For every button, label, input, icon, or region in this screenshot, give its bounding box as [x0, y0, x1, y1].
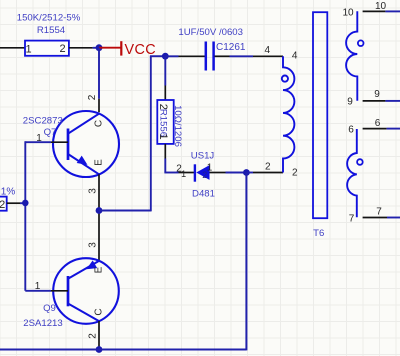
power VCC [99, 41, 156, 58]
D481 pin 2 (cathode) [176, 163, 194, 179]
T6 pin 6 [348, 118, 386, 135]
wire [387, 217, 400, 219]
junction emitters [96, 207, 103, 214]
T6 pin 7 [349, 206, 387, 224]
transistor Q7 [23, 111, 119, 177]
Q9 pin 2 (collector) [87, 321, 99, 349]
Q7 pin 3 (emitter) [87, 174, 99, 210]
svg-text:9: 9 [374, 89, 380, 100]
svg-text:E: E [94, 159, 105, 166]
svg-text:2: 2 [265, 161, 271, 172]
transistor Q9 [23, 258, 119, 329]
resistor R1556 [157, 100, 183, 147]
svg-text:1: 1 [181, 169, 186, 179]
T6 pin 4 [253, 45, 298, 61]
junction bottom rail [96, 346, 103, 353]
svg-text:10: 10 [375, 1, 387, 12]
svg-text:E: E [94, 266, 105, 273]
svg-text:3: 3 [87, 188, 98, 194]
wire [69, 47, 99, 49]
svg-text:T6: T6 [313, 228, 324, 239]
svg-text:1: 1 [157, 134, 169, 140]
Q9 pin 3 (emitter) [87, 211, 99, 261]
svg-text:6: 6 [348, 125, 354, 136]
wire [0, 349, 246, 351]
wire [99, 210, 151, 212]
svg-text:1: 1 [26, 44, 32, 56]
T6 pin 10 [342, 1, 386, 18]
Q7 pin 1 (base) [36, 133, 68, 144]
svg-text:2: 2 [87, 94, 98, 100]
junction VCC node [96, 44, 103, 51]
resistor fragment (1%) [0, 187, 15, 212]
wire [385, 10, 400, 12]
svg-text:C: C [94, 120, 105, 127]
wire [226, 172, 247, 174]
wire [245, 173, 247, 351]
wire [230, 55, 254, 57]
wire [164, 159, 178, 173]
C1261 pin 2 [215, 55, 230, 57]
svg-text:10Ω/1206: 10Ω/1206 [172, 105, 183, 147]
svg-text:4: 4 [292, 50, 298, 61]
D481 pin 1 (anode) [202, 162, 225, 180]
wire [25, 141, 51, 143]
wire [385, 100, 400, 102]
wire [25, 290, 51, 292]
Q9 pin 1 (base) [35, 281, 68, 292]
wire [165, 55, 178, 57]
svg-text:D481: D481 [192, 188, 215, 199]
diode D481 [191, 151, 215, 200]
T6 pin 2 [253, 161, 298, 178]
svg-text:150K/2512-5%: 150K/2512-5% [17, 12, 81, 23]
R1556 pin 2 [164, 86, 166, 101]
svg-text:1UF/50V /0603: 1UF/50V /0603 [178, 27, 243, 38]
wire [246, 172, 253, 174]
svg-text:2: 2 [292, 167, 298, 178]
junction node primary-low [243, 169, 250, 176]
svg-text:2: 2 [202, 170, 207, 180]
svg-text:US1J: US1J [191, 151, 215, 162]
svg-text:2: 2 [0, 199, 5, 211]
svg-text:2: 2 [59, 43, 65, 55]
T6 primary winding [282, 56, 295, 172]
svg-text:1: 1 [207, 162, 213, 173]
svg-text:Q9: Q9 [43, 303, 56, 314]
svg-text:R1554: R1554 [37, 25, 66, 36]
svg-text:2: 2 [87, 333, 98, 339]
junction node snubber [162, 53, 169, 60]
svg-text:3: 3 [87, 242, 98, 248]
svg-text:10: 10 [342, 7, 354, 18]
Q7 pin 2 (collector) [87, 94, 99, 112]
wire [150, 56, 152, 211]
svg-text:Q7: Q7 [44, 127, 57, 138]
C1261 pin 1 [179, 55, 206, 57]
svg-text:4: 4 [265, 45, 271, 56]
svg-text:2SA1213: 2SA1213 [23, 318, 62, 329]
wire [387, 128, 400, 130]
svg-text:7: 7 [349, 214, 355, 225]
wire [150, 55, 165, 57]
R1556 pin 1 [164, 144, 166, 159]
wire [98, 48, 100, 99]
T6 secondary winding 6-7 [347, 129, 363, 217]
T6 pin 9 [347, 89, 385, 108]
svg-text:7: 7 [376, 206, 382, 217]
svg-text:9: 9 [347, 96, 353, 107]
svg-text:2SC2873: 2SC2873 [23, 116, 63, 127]
junction node base [22, 200, 29, 207]
svg-text:1: 1 [35, 281, 41, 292]
svg-text:6: 6 [375, 118, 381, 129]
T6 secondary winding 10-9 [346, 11, 363, 101]
svg-text:C1261: C1261 [216, 42, 246, 53]
wire [0, 47, 25, 49]
capacitor C1261 [178, 27, 245, 71]
resistor R1554 [17, 12, 81, 56]
wire [7, 202, 26, 204]
wire [24, 141, 26, 290]
T6 core [313, 12, 327, 239]
wire [164, 56, 166, 85]
svg-text:C: C [94, 308, 105, 315]
